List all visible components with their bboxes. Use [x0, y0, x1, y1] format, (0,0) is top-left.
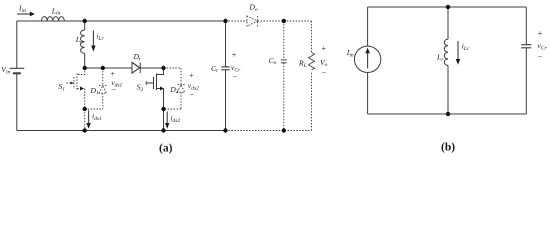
svg-text:Cr: Cr: [211, 64, 219, 74]
svg-text:Lin: Lin: [51, 6, 61, 16]
svg-text:−: −: [537, 52, 542, 61]
svg-text:iLr: iLr: [462, 42, 470, 52]
svg-text:Lr: Lr: [436, 53, 444, 63]
svg-text:Vin: Vin: [1, 65, 10, 75]
svg-text:+: +: [537, 29, 542, 38]
svg-text:iLr: iLr: [96, 32, 104, 42]
svg-text:Co: Co: [269, 56, 277, 66]
svg-text:−: −: [232, 73, 237, 82]
svg-text:S2: S2: [137, 83, 144, 93]
svg-text:Iin: Iin: [18, 3, 26, 13]
svg-text:ids1: ids1: [92, 111, 102, 121]
svg-text:D2: D2: [169, 85, 178, 95]
svg-text:(a): (a): [159, 142, 173, 154]
svg-text:−: −: [189, 90, 194, 99]
svg-text:−: −: [111, 85, 116, 94]
svg-text:D1: D1: [90, 86, 99, 96]
svg-text:+: +: [110, 69, 115, 78]
svg-text:Iin: Iin: [346, 48, 354, 58]
svg-text:−: −: [321, 68, 326, 77]
svg-text:(b): (b): [441, 142, 455, 154]
svg-text:Do: Do: [248, 2, 257, 12]
svg-text:+: +: [188, 71, 193, 80]
svg-text:Vo: Vo: [320, 58, 328, 68]
svg-text:ids2: ids2: [170, 114, 180, 124]
svg-text:S1: S1: [59, 82, 66, 92]
svg-text:Dr: Dr: [133, 52, 142, 62]
svg-text:+: +: [231, 51, 236, 60]
svg-text:RL: RL: [298, 59, 307, 69]
svg-text:vCr: vCr: [537, 41, 547, 51]
svg-text:+: +: [321, 44, 326, 53]
